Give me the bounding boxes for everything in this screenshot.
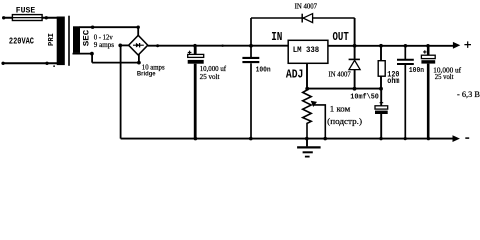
node C4 rail junction: [404, 44, 408, 48]
capacitor C5 top plate: [421, 55, 435, 58]
capacitor C1 10000uf lead top: [194, 46, 197, 55]
svg-text:ADJ: ADJ: [286, 68, 304, 82]
label plus output: [464, 41, 471, 48]
svg-text:PRI: PRI: [48, 33, 56, 46]
node C5 rail junction: [426, 44, 430, 48]
capacitor C2 100n lead: [250, 18, 252, 139]
node C1 ground junction: [194, 137, 198, 141]
svg-text:ohm: ohm: [387, 76, 399, 86]
arrow negative output: [453, 135, 460, 142]
ground symbol: [297, 139, 321, 157]
node corner above bridge: [137, 26, 140, 29]
capacitor C3 lead bottom: [380, 114, 382, 139]
svg-text:9 amps: 9 amps: [94, 41, 114, 49]
node AC terminal top-left: [2, 16, 5, 19]
capacitor C5 lead bottom: [427, 64, 430, 139]
capacitor C3 bottom plate: [375, 111, 388, 114]
diode D2 IN4007 symbol: [349, 59, 361, 69]
wire OUT rail: [328, 45, 454, 47]
node C2 ground junction: [249, 137, 253, 141]
node wiper ground junction: [323, 137, 327, 141]
node D2 anode junction: [353, 87, 357, 91]
node secondary bottom terminal: [90, 52, 94, 56]
node C1 top junction: [193, 44, 197, 48]
arrow positive output: [453, 42, 460, 49]
svg-text:10mf\50: 10mf\50: [350, 94, 379, 102]
capacitor C5 10000uf output lead top: [427, 46, 430, 55]
diode D1 IN4007 bypass: [302, 14, 312, 23]
capacitor C5 bottom plate: [421, 60, 435, 63]
wire bypass diode line: [251, 17, 355, 19]
bridge rectifier B1 inner diode: [133, 43, 144, 48]
node R1 top junction: [379, 44, 383, 48]
node C4 ground junction: [404, 137, 407, 140]
transformer T1 secondary winding bar: [73, 26, 80, 53]
svg-text:10,000 uf: 10,000 uf: [200, 65, 227, 73]
C1 polarity plus: [188, 51, 192, 55]
capacitor C4 100n output: [397, 46, 414, 139]
fuse FUSE: [12, 15, 42, 21]
svg-text:IN: IN: [271, 30, 282, 44]
node bottom primary junction: [45, 62, 48, 65]
C3 polarity plus: [380, 101, 384, 105]
capacitor C3 10mf lead top: [380, 89, 382, 106]
wire ground rail: [121, 138, 454, 140]
node AC terminal bottom-left: [1, 62, 4, 65]
svg-text:LM 338: LM 338: [293, 46, 320, 55]
wire secondary top to bridge: [80, 26, 139, 28]
node D2 out rail junction: [353, 44, 357, 48]
wire ADJ rail: [307, 88, 382, 90]
node pot ground junction: [305, 137, 309, 141]
svg-text:0 - 12v: 0 - 12v: [94, 32, 113, 41]
svg-text:SEC: SEC: [82, 30, 92, 47]
node secondary top terminal: [91, 26, 94, 29]
capacitor C3 top plate: [375, 106, 388, 109]
svg-text:1 ком: 1 ком: [330, 103, 351, 113]
svg-text:100n: 100n: [409, 67, 424, 75]
capacitor C1 top plate: [188, 54, 204, 57]
wire bridge minus down to ground rail: [120, 45, 122, 138]
svg-text:Bridge: Bridge: [137, 71, 156, 78]
capacitor C2 plates: [242, 58, 259, 62]
node R1 bottom junction: [379, 87, 383, 91]
node ADJ rail left: [305, 87, 309, 91]
node C5 ground junction: [427, 137, 430, 140]
svg-text:- 6,3 В: - 6,3 В: [457, 89, 480, 99]
diode D2 IN4007 lead: [354, 18, 356, 89]
wire bridge top lead: [137, 27, 139, 36]
svg-text:(подстр.): (подстр.): [327, 117, 362, 126]
svg-text:IN 4007: IN 4007: [295, 4, 318, 11]
svg-text:220VAC: 220VAC: [9, 35, 34, 46]
node bridge bottom corner: [137, 61, 141, 65]
capacitor C1 bottom plate: [188, 60, 204, 64]
svg-text:OUT: OUT: [333, 30, 349, 44]
svg-text:25 volt: 25 volt: [200, 73, 220, 81]
regulator U1 LM338 box: [288, 40, 328, 63]
wire top primary: [4, 17, 58, 19]
bridge rectifier B1 diamond: [129, 35, 148, 55]
node C3 ground junction: [379, 137, 382, 140]
wire main positive rail: [148, 45, 288, 47]
node fuse right junction: [45, 16, 48, 19]
wire bridge left lead: [120, 44, 129, 46]
node bridge minus corner: [118, 44, 122, 48]
potentiometer RP1 zigzag: [303, 89, 312, 139]
transformer T1 primary winding bar: [57, 17, 65, 66]
C5 polarity plus: [423, 50, 426, 53]
node C2 rail junction: [249, 44, 253, 48]
capacitor C1 lead bottom: [194, 64, 197, 139]
wire wiper return: [314, 105, 326, 139]
transformer T1 core: [68, 16, 70, 66]
wire secondary bottom: [73, 54, 139, 63]
resistor R1 120 ohm: [378, 46, 385, 89]
svg-text:FUSE: FUSE: [16, 8, 36, 16]
node stray dot: [53, 65, 55, 67]
wire bottom primary: [3, 62, 58, 64]
wire ADJ pin: [306, 63, 308, 88]
node bridge plus output: [156, 44, 159, 47]
potentiometer RP1 wiper arrow: [311, 101, 317, 107]
label minus output: [465, 137, 469, 139]
svg-text:25 volt: 25 volt: [435, 73, 454, 81]
node small rail dot: [221, 45, 223, 47]
svg-text:100n: 100n: [256, 67, 271, 75]
svg-text:IN 4007: IN 4007: [329, 72, 352, 79]
